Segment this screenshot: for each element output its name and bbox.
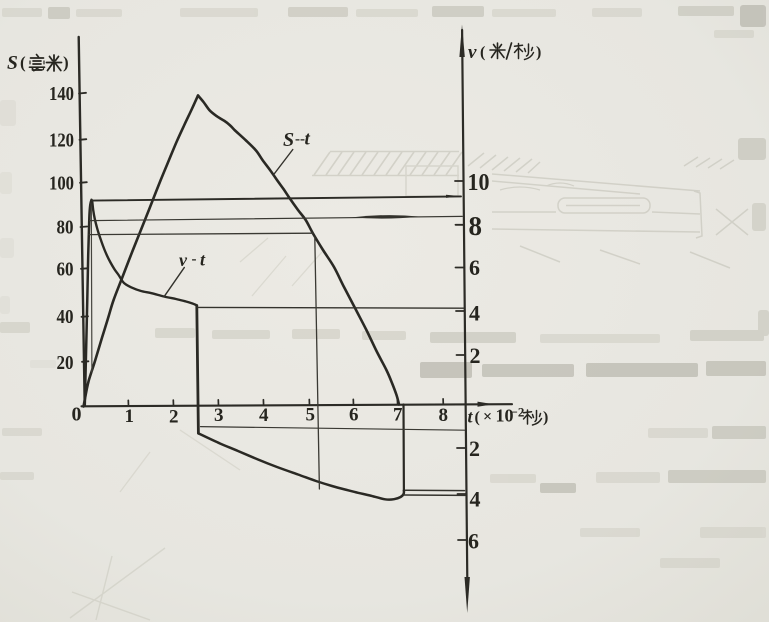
horizontal line 1: peak velocity level with arrow to v axis (92, 196, 461, 200)
svg-text:4: 4 (259, 405, 269, 426)
hatch band over chart (312, 152, 462, 176)
svg-text:v: v (179, 250, 188, 270)
bottom text rows (648, 428, 708, 438)
v-t label pointer (164, 268, 184, 297)
svg-text:-: - (192, 252, 197, 268)
v-t negative arc (199, 434, 404, 500)
svg-text:(: ( (20, 53, 26, 72)
S axis title: S(毫米) (7, 53, 69, 74)
t-axis arrowhead (478, 402, 494, 407)
S-t label pointer (275, 150, 293, 174)
svg-text:S: S (7, 53, 18, 74)
t axis title: t(×10^-2 秒) (468, 405, 549, 427)
svg-text:4: 4 (469, 301, 480, 326)
svg-text:×: × (483, 409, 492, 426)
svg-text:S: S (283, 129, 294, 151)
glyph hao 毫 (30, 55, 45, 71)
svg-text:2: 2 (469, 436, 480, 461)
svg-text:(: ( (475, 409, 480, 426)
v-t spike rising edge (85, 200, 92, 405)
glyph miao 秒 (524, 410, 542, 425)
svg-text:): ) (63, 53, 69, 72)
lens arrow on line 2 (352, 215, 420, 219)
v axis title: v(米/秒) (468, 42, 541, 63)
svg-text:5: 5 (306, 405, 316, 426)
v-t vertical drop at t=2.55 (197, 306, 199, 434)
faint rectangle under hatch (406, 166, 458, 196)
svg-text:6: 6 (468, 529, 479, 554)
svg-text:8: 8 (439, 405, 449, 426)
S axis (left vertical axis) (79, 37, 85, 406)
right edge dark marks (738, 138, 766, 160)
svg-text:8: 8 (469, 211, 483, 241)
svg-text:--: -- (295, 132, 305, 148)
svg-text:100: 100 (49, 173, 74, 195)
svg-text:140: 140 (49, 83, 74, 105)
svg-text:60: 60 (57, 259, 74, 281)
v-t decay curve (92, 202, 196, 305)
v axis numeric labels (468, 170, 490, 554)
svg-text:120: 120 (49, 130, 74, 152)
svg-text:6: 6 (469, 255, 480, 280)
v-axis tick marks (455, 181, 467, 540)
glyph mi 米 (490, 43, 505, 59)
svg-text:3: 3 (214, 405, 224, 426)
svg-text:7: 7 (393, 405, 403, 426)
svg-text:2: 2 (470, 343, 481, 368)
v axis (right vertical axis) (462, 30, 467, 580)
svg-text:v: v (468, 42, 477, 63)
svg-text:10: 10 (468, 170, 490, 196)
v-axis top arrow (459, 25, 464, 58)
svg-text:1: 1 (125, 406, 135, 427)
glyph miao 秒 (515, 44, 534, 60)
horizontal double line 6 to -4 label (406, 489, 465, 491)
svg-text:4: 4 (470, 487, 481, 512)
svg-text:t: t (305, 129, 311, 150)
mid right text rows (430, 332, 516, 343)
bottom-left faint diagonals (70, 548, 165, 620)
faint in-chart bleed text row (0, 322, 406, 340)
S-t curve rising branch (84, 96, 199, 407)
mechanism bleed right of axis (468, 153, 748, 268)
t axis numeric labels (125, 405, 449, 428)
svg-text:): ) (543, 409, 548, 426)
horizontal line 5: below axis level line (201, 427, 465, 431)
horizontal line 4: v=4.5 level from drop corner to v axis (197, 306, 464, 309)
top text row (2, 8, 42, 17)
svg-text:6: 6 (349, 405, 359, 426)
thin drop line from spike peak (90, 203, 93, 372)
horizontal line 3 (ends at S-t curve) (89, 233, 313, 234)
S axis numeric labels (49, 83, 82, 426)
svg-text:80: 80 (57, 217, 74, 239)
glyph mi 米 (47, 55, 62, 71)
svg-text:(: ( (480, 44, 485, 61)
svg-text:40: 40 (57, 306, 74, 328)
t axis (horizontal axis) (82, 404, 513, 406)
svg-text:20: 20 (57, 352, 74, 374)
svg-text:0: 0 (72, 404, 82, 426)
svg-text:): ) (536, 44, 541, 61)
horizontal line 2 with lens arrow (90, 216, 463, 220)
v-axis bottom arrow (465, 577, 470, 613)
vertical riser at t=7 (v jumps to 0) (402, 405, 405, 491)
svg-text:2: 2 (169, 407, 179, 428)
svg-text:−2: −2 (511, 405, 525, 420)
t-axis tick marks (128, 399, 443, 406)
vertical construction line at t=5.15 (315, 237, 320, 489)
S-axis tick marks (79, 93, 88, 362)
S-t curve falling branch (198, 96, 399, 405)
